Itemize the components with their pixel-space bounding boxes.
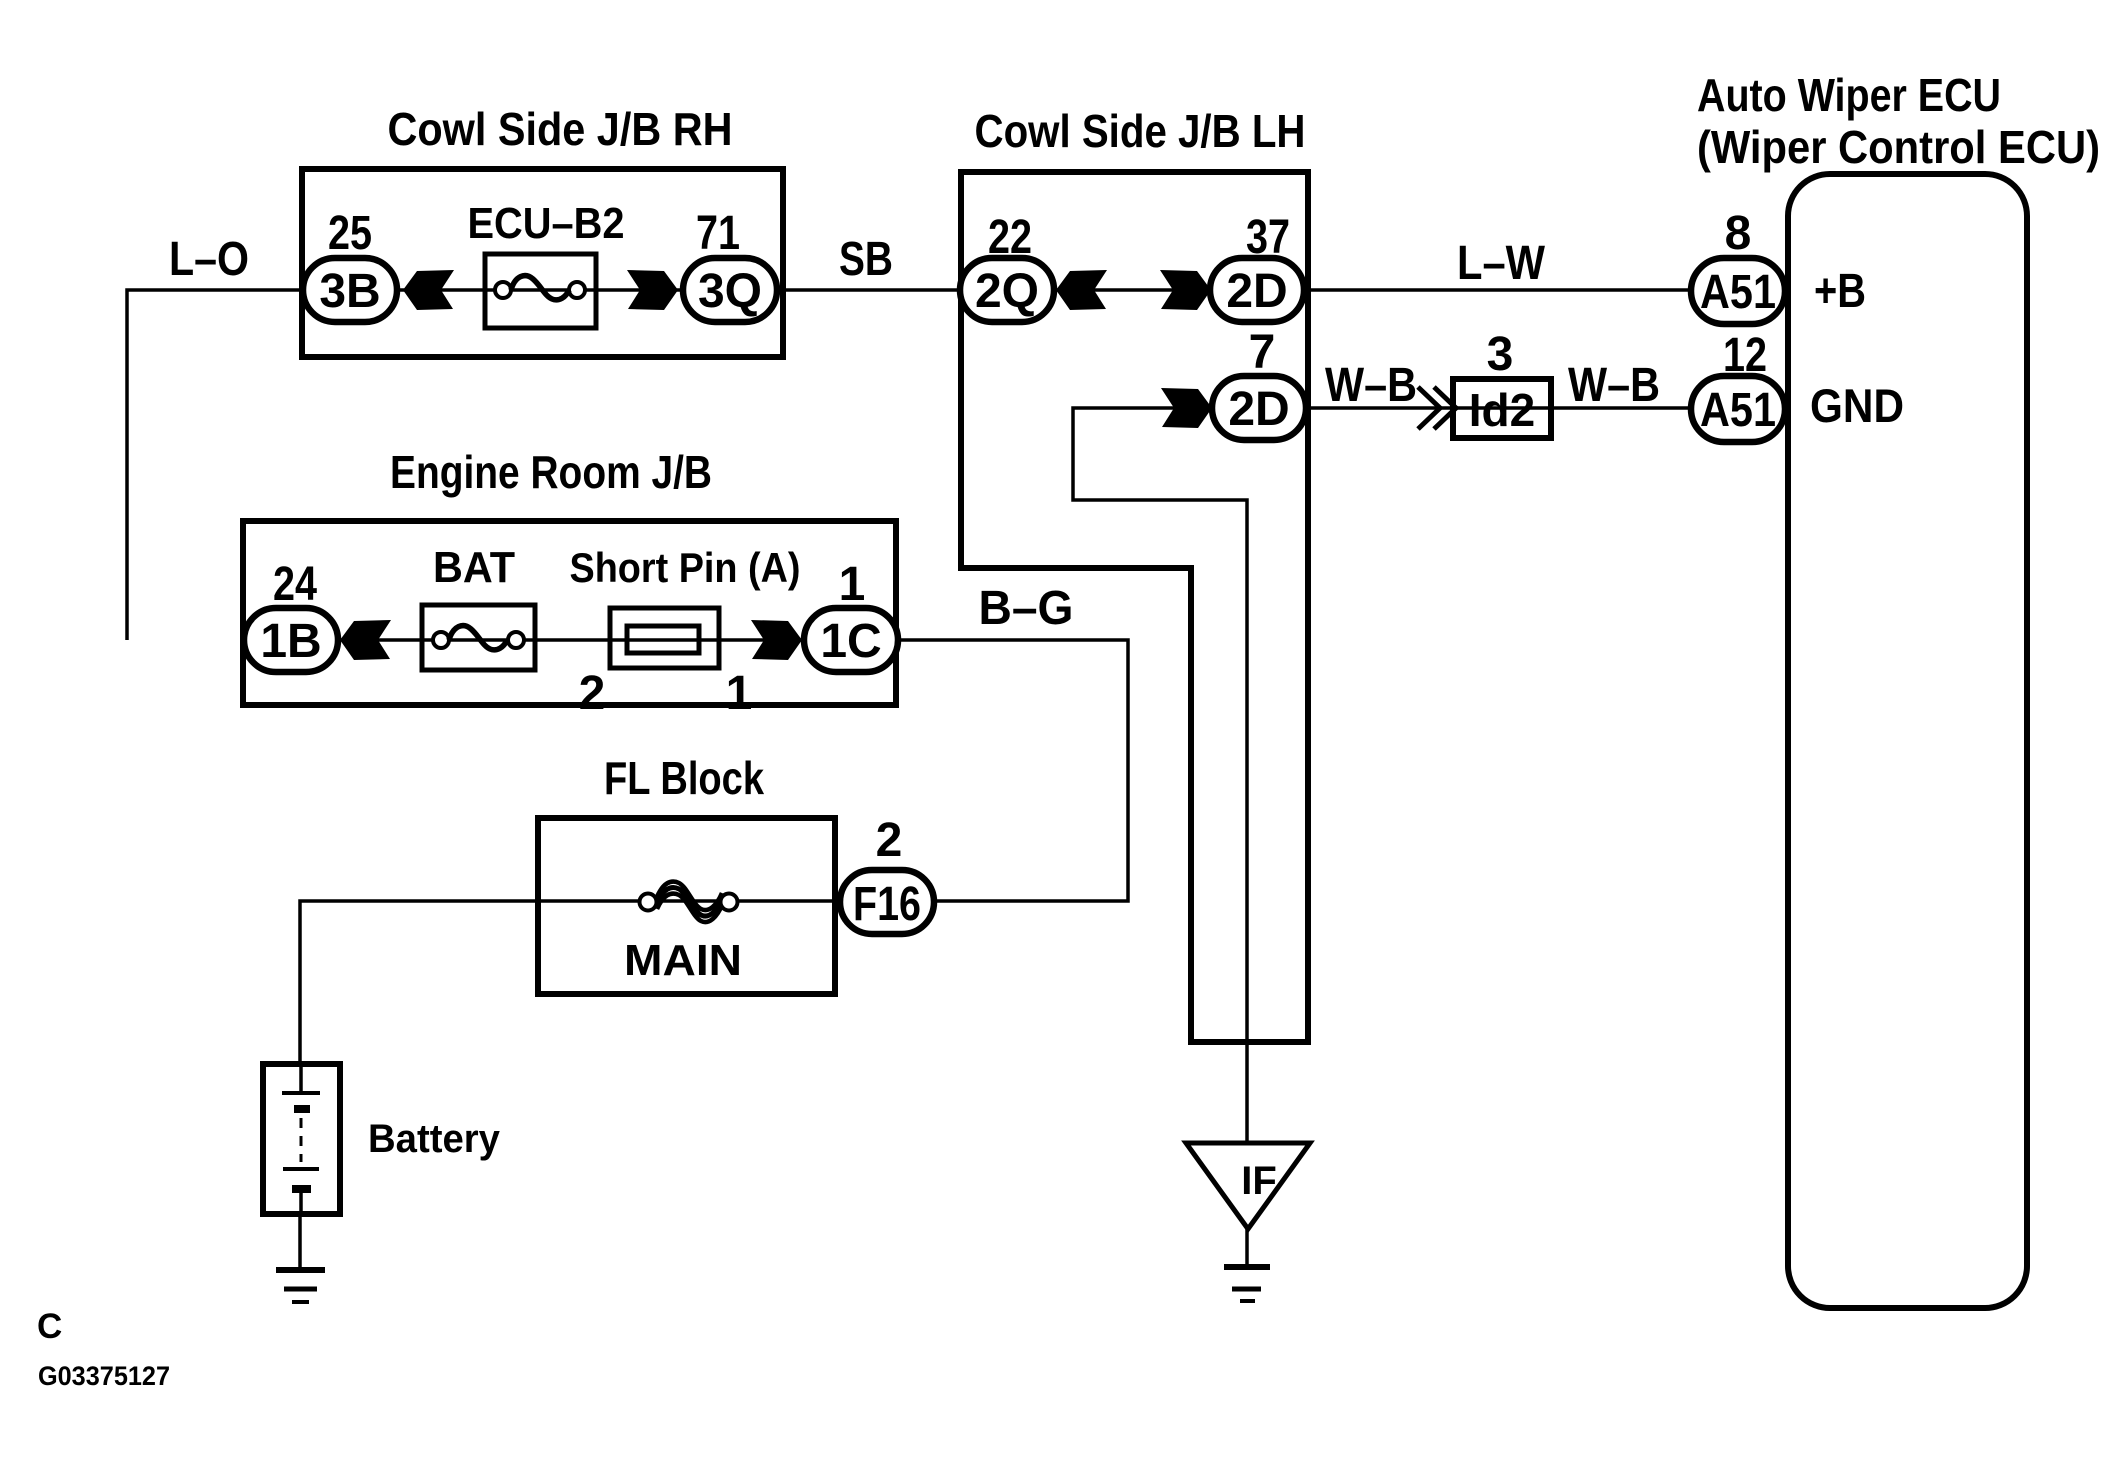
connector 2D pin 7 xyxy=(1212,376,1306,440)
label +B (ECU terminal) xyxy=(1814,265,1866,318)
svg-text:3B: 3B xyxy=(319,265,380,318)
label GND (ECU terminal) xyxy=(1810,379,1904,432)
ground (IF) xyxy=(1224,1267,1270,1301)
label W-B right (wire color) xyxy=(1568,359,1660,412)
connector 2D pin 37 xyxy=(1210,258,1304,322)
junction block Cowl Side J/B RH xyxy=(302,169,783,357)
svg-text:F16: F16 xyxy=(853,878,921,931)
fusible link MAIN xyxy=(640,882,738,923)
svg-text:ECU–B2: ECU–B2 xyxy=(468,199,625,248)
battery B1 xyxy=(263,1064,340,1214)
svg-text:A51: A51 xyxy=(1700,384,1776,437)
pin 1 label (1C) xyxy=(839,558,866,611)
connector Id2 xyxy=(1453,379,1551,438)
connector 3B xyxy=(303,258,397,322)
connector A51 pin 8 xyxy=(1691,258,1785,324)
wire battery positive to FL Block xyxy=(300,901,845,1061)
pin 25 label xyxy=(328,207,372,260)
svg-text:IF: IF xyxy=(1241,1159,1277,1203)
svg-text:+B: +B xyxy=(1814,265,1866,318)
svg-text:L–W: L–W xyxy=(1457,237,1546,290)
svg-text:C: C xyxy=(37,1307,62,1346)
wire battery negative to ground xyxy=(298,1217,302,1270)
svg-text:3: 3 xyxy=(1487,328,1514,381)
ground (battery) xyxy=(276,1270,325,1302)
pin 71 label xyxy=(696,207,740,260)
label Battery xyxy=(368,1117,501,1161)
label G03375127 (figure number) xyxy=(38,1361,170,1391)
arrow into 2D pin37 (right-pointing) xyxy=(1160,270,1211,310)
label Cowl Side J/B RH xyxy=(388,103,733,155)
junction block FL Block xyxy=(538,818,835,994)
svg-text:G03375127: G03375127 xyxy=(38,1361,170,1391)
connector F16 xyxy=(840,870,934,934)
label MAIN xyxy=(624,936,742,985)
label W-B left (wire color) xyxy=(1325,359,1417,412)
svg-text:1C: 1C xyxy=(820,615,881,668)
label Auto Wiper ECU xyxy=(1697,69,2001,121)
pin 3 label (Id2) xyxy=(1487,328,1514,381)
svg-text:A51: A51 xyxy=(1700,266,1776,319)
svg-text:GND: GND xyxy=(1810,379,1904,432)
svg-text:(Wiper Control ECU): (Wiper Control ECU) xyxy=(1697,121,2100,173)
svg-text:2D: 2D xyxy=(1228,383,1289,436)
pin 2 label (F16) xyxy=(876,814,903,867)
pin 37 label xyxy=(1246,211,1290,264)
label Id2 xyxy=(1469,384,1535,436)
label L-O (wire color) xyxy=(169,233,249,286)
svg-text:Cowl Side J/B RH: Cowl Side J/B RH xyxy=(388,103,733,155)
junction block Engine Room J/B xyxy=(243,521,896,705)
wire W-B (Id2 to A51 GND) xyxy=(1310,406,1692,410)
pin 8 label xyxy=(1725,207,1752,260)
arrow into 2D pin7 (right-pointing) xyxy=(1161,388,1212,428)
svg-text:B–G: B–G xyxy=(979,582,1074,635)
label SB (wire color) xyxy=(839,233,893,286)
svg-text:SB: SB xyxy=(839,233,893,286)
svg-text:Cowl Side J/B LH: Cowl Side J/B LH xyxy=(975,105,1306,157)
svg-text:2Q: 2Q xyxy=(975,265,1039,318)
svg-text:W–B: W–B xyxy=(1568,359,1660,412)
svg-text:Engine Room J/B: Engine Room J/B xyxy=(390,446,712,498)
connector A51 pin 12 xyxy=(1691,376,1785,442)
wire B-G (1C to F16 net) xyxy=(249,640,1128,901)
label ECU-B2 xyxy=(468,199,625,248)
fuse ECU-B2 xyxy=(485,254,596,328)
svg-text:12: 12 xyxy=(1723,329,1767,382)
chevron junction before Id2 xyxy=(1418,387,1456,429)
svg-text:W–B: W–B xyxy=(1325,359,1417,412)
fuse BAT xyxy=(422,605,535,670)
pin 24 label xyxy=(273,558,317,611)
svg-text:BAT: BAT xyxy=(433,543,515,592)
svg-text:7: 7 xyxy=(1249,326,1276,379)
svg-text:8: 8 xyxy=(1725,207,1752,260)
pin 7 label xyxy=(1249,326,1276,379)
label Cowl Side J/B LH xyxy=(975,105,1306,157)
connector 1B xyxy=(244,608,338,672)
svg-text:Auto Wiper ECU: Auto Wiper ECU xyxy=(1697,69,2001,121)
arrow into 1C (right-pointing) xyxy=(751,620,802,660)
arrow into 3Q (right-pointing) xyxy=(627,270,678,310)
pin 2 label (short pin left) xyxy=(579,667,606,720)
svg-text:L–O: L–O xyxy=(169,233,249,286)
label Engine Room J/B xyxy=(390,446,712,498)
arrow into 1B (left-pointing) xyxy=(340,620,391,660)
pin 22 label xyxy=(988,211,1032,264)
svg-text:25: 25 xyxy=(328,207,372,260)
label (Wiper Control ECU) xyxy=(1697,121,2100,173)
svg-text:Battery: Battery xyxy=(368,1117,501,1161)
svg-text:2: 2 xyxy=(876,814,903,867)
pin 12 label xyxy=(1723,329,1767,382)
label Short Pin (A) xyxy=(570,544,801,591)
short pin (A) symbol xyxy=(610,608,719,668)
connector 1C xyxy=(804,608,898,672)
arrow into 2Q (left-pointing) xyxy=(1056,270,1107,310)
svg-text:1: 1 xyxy=(726,667,753,720)
label C (figure index) xyxy=(37,1307,62,1346)
svg-text:FL Block: FL Block xyxy=(604,752,764,804)
label FL Block xyxy=(604,752,764,804)
junction block Cowl Side J/B LH (stepped outline) xyxy=(961,172,1308,1042)
connector 2Q xyxy=(960,258,1054,322)
svg-text:MAIN: MAIN xyxy=(624,936,742,985)
connector 3Q xyxy=(683,258,777,322)
svg-text:1B: 1B xyxy=(260,615,321,668)
label BAT xyxy=(433,543,515,592)
arrow into 3B (left-pointing) xyxy=(403,270,454,310)
wire 2D pin7 to IF ground net xyxy=(1073,408,1247,1143)
svg-text:24: 24 xyxy=(273,558,317,611)
wire IF triangle to ground xyxy=(1245,1229,1249,1267)
svg-text:Id2: Id2 xyxy=(1469,384,1535,436)
svg-text:2: 2 xyxy=(579,667,606,720)
label B-G (wire color) xyxy=(979,582,1074,635)
svg-text:71: 71 xyxy=(696,207,740,260)
svg-text:3Q: 3Q xyxy=(698,265,762,318)
svg-text:Short Pin (A): Short Pin (A) xyxy=(570,544,801,591)
ECU U1 Auto Wiper ECU (Wiper Control ECU) body xyxy=(1788,174,2027,1308)
ground connector IF triangle xyxy=(1186,1143,1310,1229)
wire L-O / SB / L-W (battery feed net, y=290) xyxy=(127,290,1692,640)
svg-text:1: 1 xyxy=(839,558,866,611)
svg-text:2D: 2D xyxy=(1226,265,1287,318)
pin 1 label (short pin right) xyxy=(726,667,753,720)
svg-text:22: 22 xyxy=(988,211,1032,264)
label L-W (wire color) xyxy=(1457,237,1546,290)
svg-text:37: 37 xyxy=(1246,211,1290,264)
